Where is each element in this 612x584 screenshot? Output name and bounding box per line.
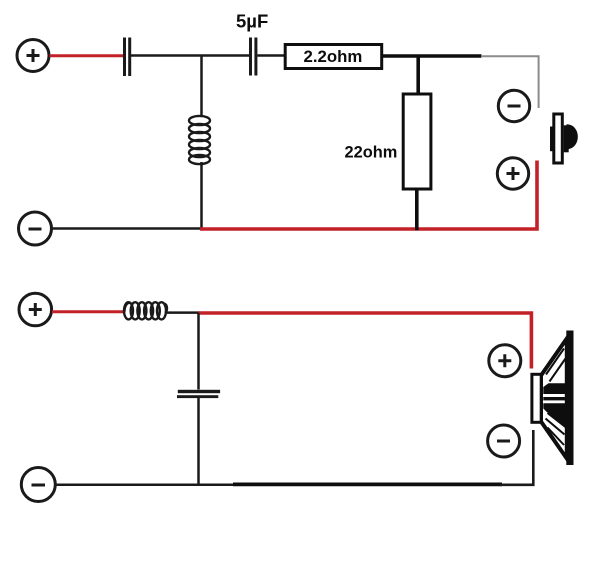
woofer lower blob xyxy=(543,403,566,427)
terminal - (bottom input) xyxy=(21,468,55,502)
wire bottom rail red + vertical to speaker plus xyxy=(200,161,537,230)
wire R2 to bottom rail xyxy=(415,191,419,231)
wire bottom rail (thin left) xyxy=(56,484,236,487)
terminal + (woofer) xyxy=(489,345,521,377)
svg-text:2.2ohm: 2.2ohm xyxy=(304,47,363,66)
svg-text:5µF: 5µF xyxy=(236,11,268,32)
wire node to R2 (vertical) xyxy=(416,56,420,93)
wire C3 to bottom rail xyxy=(197,398,200,485)
resistor R1 2.2ohm box xyxy=(285,45,382,69)
svg-text:22ohm: 22ohm xyxy=(345,144,398,162)
capacitor C1 xyxy=(123,38,131,77)
woofer upper stripes xyxy=(546,349,566,382)
capacitor C2 5uF xyxy=(249,38,257,76)
inductor L1 coil xyxy=(189,116,210,164)
wire bottom rail (thick middle) xyxy=(233,483,502,487)
inductor L1 wire lower stub xyxy=(200,162,203,230)
capacitor C3 xyxy=(177,390,220,398)
woofer magnet xyxy=(532,374,541,422)
terminal - (tweeter) xyxy=(498,90,529,121)
woofer body xyxy=(532,331,574,466)
wire red from + to C1 xyxy=(50,54,125,57)
wire grey to speaker minus xyxy=(481,56,539,108)
woofer middle band xyxy=(543,397,566,400)
wire red from + to L2 xyxy=(52,310,125,313)
woofer upper blob xyxy=(543,383,566,394)
wire node to C3 (vertical) xyxy=(197,313,200,390)
tweeter body xyxy=(550,114,578,163)
wire L2 to node xyxy=(167,311,200,314)
inductor L2 coil xyxy=(124,302,167,319)
terminal + (tweeter) xyxy=(497,158,528,189)
woofer rim bar xyxy=(566,331,573,466)
terminal + (top input) xyxy=(17,40,49,72)
woofer cone outline xyxy=(541,339,567,459)
wire bottom rail black xyxy=(52,227,202,230)
terminal - (woofer) xyxy=(488,425,520,457)
terminal - (top input) xyxy=(19,212,52,245)
wire C2 to R1 xyxy=(258,54,286,57)
woofer lower stripes xyxy=(546,413,567,445)
wire red node to speaker plus xyxy=(199,313,532,369)
resistor R2 22ohm box xyxy=(403,94,431,189)
inductor L1 wire upper stub xyxy=(200,56,203,118)
wire bottom rail right + vertical to speaker minus xyxy=(500,430,533,485)
wire R1 to node (black thick) xyxy=(383,54,482,58)
terminal + (bottom input) xyxy=(19,293,52,326)
wire C1 to C2 xyxy=(131,54,250,57)
